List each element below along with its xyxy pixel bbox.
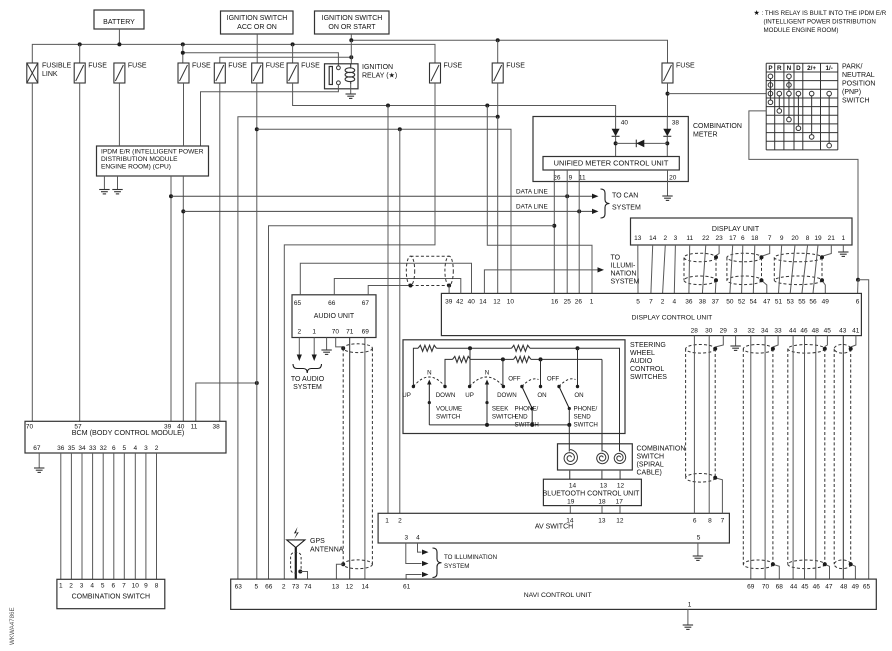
- wire audio 66 to DCU 42: [334, 279, 461, 295]
- svg-text:51: 51: [775, 299, 783, 306]
- svg-text:4: 4: [416, 535, 420, 542]
- wire DU17 to DCU50: [730, 245, 733, 293]
- wire gps shield to NAVI 13: [341, 562, 345, 566]
- svg-text:COMBINATION: COMBINATION: [693, 123, 742, 130]
- svg-text:67: 67: [33, 445, 41, 452]
- svg-text:19: 19: [814, 235, 822, 242]
- svg-text:38: 38: [672, 120, 680, 127]
- svg-text:NAVI CONTROL UNIT: NAVI CONTROL UNIT: [524, 592, 592, 599]
- svg-text:RELAY (★): RELAY (★): [362, 72, 397, 80]
- svg-text:20: 20: [791, 235, 799, 242]
- svg-text:12: 12: [346, 584, 354, 591]
- pole wire to spiral 1: [568, 425, 570, 452]
- svg-text:33: 33: [774, 328, 782, 335]
- wire DU6 to DCU52: [742, 245, 743, 293]
- fuse at x=667.5: [662, 63, 673, 83]
- svg-text:37: 37: [712, 299, 720, 306]
- svg-text:13: 13: [598, 518, 606, 525]
- shield C4 (DCU 43 to NAVI 48): [833, 349, 835, 565]
- svg-text:FUSE: FUSE: [444, 63, 463, 70]
- svg-text:MODULE ENGINE ROOM): MODULE ENGINE ROOM): [764, 27, 839, 34]
- data line 2: [183, 210, 592, 212]
- svg-text:67: 67: [362, 300, 370, 307]
- wires spiral to bluetooth: [569, 470, 571, 479]
- wire UMCU 9 to DCU 25: [566, 170, 568, 293]
- wire shield C2 to NAVI68: [773, 564, 779, 579]
- svg-text:11: 11: [686, 235, 693, 242]
- wire DU2 to DCU2: [663, 245, 666, 293]
- wire UMCU 11 to DCU 26: [578, 170, 580, 293]
- ground IPDM 2: [117, 176, 119, 190]
- combination switch box: [57, 579, 165, 608]
- svg-text:TO AUDIO: TO AUDIO: [291, 376, 325, 383]
- svg-text:45: 45: [801, 584, 809, 591]
- svg-text:ON OR START: ON OR START: [328, 24, 376, 31]
- svg-text:33: 33: [89, 445, 97, 452]
- wires bluetooth to AV switch: [569, 506, 571, 514]
- wire DU21 to shield G3: [822, 245, 831, 256]
- wire branch to DCU 1: [487, 106, 592, 294]
- svg-text:CONTROL: CONTROL: [630, 366, 664, 373]
- audio ground pin: [326, 338, 328, 351]
- seek switch: [468, 385, 471, 388]
- svg-text:38: 38: [212, 423, 220, 430]
- wire fuse 667 to PNP and meter 38: [667, 83, 669, 117]
- svg-text:28: 28: [691, 328, 699, 335]
- svg-text:36: 36: [685, 299, 693, 306]
- svg-text:66: 66: [265, 584, 273, 591]
- bus UMCU26 junction to NAVI 66: [269, 226, 555, 579]
- svg-text:65: 65: [294, 300, 302, 307]
- svg-text:1: 1: [841, 235, 845, 242]
- svg-text:4: 4: [672, 299, 676, 306]
- steering wheel switch box: [403, 340, 625, 434]
- volume switch: [412, 385, 415, 388]
- svg-text:69: 69: [362, 329, 370, 336]
- svg-text:WKWA4786E: WKWA4786E: [9, 607, 16, 645]
- wire audio 71 to NAVI 12: [349, 338, 351, 580]
- wire DCU43 to NAVI48: [842, 336, 844, 579]
- svg-text:17: 17: [616, 498, 624, 505]
- wires BCM to combination switch: [61, 453, 157, 579]
- audio outputs to audio system: [298, 338, 300, 356]
- wire DCU34 to NAVI70: [764, 336, 766, 579]
- wire DCU48 to NAVI46: [815, 336, 817, 579]
- wire shield G1 to DCU37: [714, 280, 717, 293]
- svg-text:IPDM E/R (INTELLIGENT POWER: IPDM E/R (INTELLIGENT POWER: [101, 149, 204, 156]
- svg-text:2: 2: [398, 518, 402, 525]
- shield C2 (DCU 32,34 to NAVI 69,70): [742, 349, 744, 565]
- svg-text:25: 25: [564, 299, 572, 306]
- svg-text:TO ILLUMINATION: TO ILLUMINATION: [444, 554, 497, 561]
- svg-text:ENGINE ROOM) (CPU): ENGINE ROOM) (CPU): [101, 164, 171, 171]
- svg-text:PARK/: PARK/: [842, 64, 863, 71]
- wire gps shield to NAVI 74: [300, 572, 307, 580]
- svg-text:NATION: NATION: [611, 271, 637, 278]
- wire branch to AV 1: [387, 106, 389, 514]
- AV switch box: [378, 513, 729, 543]
- svg-text:7: 7: [721, 518, 725, 525]
- svg-text:SWITCH: SWITCH: [492, 414, 516, 421]
- svg-text:43: 43: [839, 328, 847, 335]
- svg-text:BATTERY: BATTERY: [103, 19, 135, 26]
- bus B ignition ON feed: [350, 34, 352, 40]
- svg-text:★ : THIS RELAY IS BUILT INTO T: ★ : THIS RELAY IS BUILT INTO THE IPDM E/…: [754, 9, 887, 17]
- svg-text:FUSE: FUSE: [676, 63, 695, 70]
- svg-text:70: 70: [762, 584, 770, 591]
- svg-text:32: 32: [747, 328, 755, 335]
- svg-text:AUDIO: AUDIO: [630, 358, 653, 365]
- wire DCU28 to AV6: [693, 336, 695, 514]
- NAVI 61 to illumination: [406, 575, 421, 580]
- wire fuse 497 bus to NAVI 63: [497, 83, 499, 117]
- svg-text:METER: METER: [693, 132, 718, 139]
- svg-text:35: 35: [68, 445, 76, 452]
- display unit box: [631, 218, 853, 245]
- phone/send switch: [557, 385, 560, 388]
- svg-text:LINK: LINK: [42, 71, 58, 78]
- svg-text:49: 49: [852, 584, 860, 591]
- svg-text:FUSE: FUSE: [192, 63, 211, 70]
- svg-text:CABLE): CABLE): [637, 470, 662, 477]
- svg-text:N: N: [427, 370, 431, 377]
- wire shield to DCU 39: [448, 286, 450, 294]
- svg-text:13: 13: [600, 483, 608, 490]
- svg-text:FUSE: FUSE: [128, 63, 147, 70]
- wire DCU45 to shield C3: [825, 336, 828, 347]
- audio unit box: [292, 295, 376, 338]
- svg-text:1: 1: [312, 329, 316, 336]
- svg-text:44: 44: [790, 584, 798, 591]
- wire UMCU 26 to DCU 16: [553, 170, 555, 293]
- svg-text:2: 2: [661, 299, 665, 306]
- IPDM E/R box: [97, 146, 209, 176]
- svg-text:2: 2: [69, 583, 73, 590]
- wire battery to bus: [118, 29, 120, 44]
- svg-text:(SPIRAL: (SPIRAL: [637, 462, 664, 469]
- svg-text:14: 14: [479, 299, 487, 306]
- svg-text:(PNP): (PNP): [842, 89, 861, 96]
- wire fuse 80 to BCM 57: [79, 83, 81, 421]
- svg-text:9: 9: [569, 175, 573, 182]
- svg-text:5: 5: [636, 299, 640, 306]
- diode between 40 and 38: [616, 142, 668, 144]
- svg-text:22: 22: [702, 235, 710, 242]
- svg-text:COMBINATION: COMBINATION: [637, 446, 686, 453]
- svg-text:65: 65: [863, 584, 871, 591]
- wire DU19 to DCU56: [813, 245, 818, 293]
- wire ignition coil drop: [350, 40, 352, 64]
- svg-text:10: 10: [507, 299, 515, 306]
- battery box: [94, 10, 144, 29]
- unified meter control unit: [543, 157, 679, 171]
- wire audio 70 to gps shield: [336, 338, 344, 347]
- bottom rail: [429, 424, 569, 426]
- svg-text:6: 6: [693, 518, 697, 525]
- wire fuse battery to IPDM: [118, 83, 120, 146]
- AV pin 5 ground: [697, 543, 699, 556]
- svg-text:19: 19: [567, 498, 575, 505]
- wire fuse risers from bus A: [79, 44, 81, 63]
- svg-text:17: 17: [729, 235, 737, 242]
- gps antenna: [287, 540, 305, 548]
- BCM 67 ground: [38, 453, 40, 468]
- svg-text:IGNITION SWITCH: IGNITION SWITCH: [227, 15, 288, 22]
- svg-text:14: 14: [649, 235, 657, 242]
- ignition switch ACC box: [221, 11, 294, 34]
- svg-text:N: N: [787, 65, 792, 72]
- navi control unit box: [231, 579, 877, 609]
- svg-text:FUSE: FUSE: [228, 63, 247, 70]
- svg-text:12: 12: [617, 483, 625, 490]
- svg-text:68: 68: [776, 584, 784, 591]
- svg-text:8: 8: [708, 518, 712, 525]
- svg-text:UP: UP: [402, 392, 411, 399]
- wire shield C3 to NAVI47: [825, 564, 830, 579]
- svg-text:UP: UP: [465, 392, 474, 399]
- svg-text:56: 56: [809, 299, 817, 306]
- svg-text:DISPLAY CONTROL UNIT: DISPLAY CONTROL UNIT: [632, 315, 713, 322]
- combination meter box: [533, 117, 688, 182]
- wire ACC branch to AV 2: [399, 129, 401, 513]
- svg-text:34: 34: [78, 445, 86, 452]
- bluetooth control unit box: [543, 479, 641, 505]
- wire DU14 to DCU7: [651, 245, 653, 293]
- shield C3 (DCU 44,46,48 to NAVI 44,45,46): [787, 349, 789, 565]
- svg-text:54: 54: [750, 299, 758, 306]
- ignition switch ON box: [315, 11, 390, 34]
- wire PNP R to DCU 6 / NAVI 65: [749, 111, 858, 280]
- svg-text:1: 1: [59, 583, 63, 590]
- svg-text:6: 6: [856, 299, 860, 306]
- svg-text:47: 47: [825, 584, 833, 591]
- svg-text:14: 14: [569, 483, 577, 490]
- wire fuse 184 to IPDM: [183, 83, 185, 146]
- svg-text:14: 14: [566, 518, 574, 525]
- wire DU9 to DCU51: [779, 245, 782, 293]
- svg-text:4: 4: [90, 583, 94, 590]
- fuse at x=183.5: [178, 63, 189, 83]
- fuse at x=292.6: [287, 63, 298, 83]
- svg-text:D: D: [796, 65, 801, 72]
- wire DCU30 to AV8: [708, 336, 710, 514]
- DCU 3 ground: [735, 336, 737, 346]
- svg-text:DISPLAY UNIT: DISPLAY UNIT: [712, 226, 760, 233]
- fuse at x=257.2: [252, 63, 263, 83]
- bus D ignition to fuse 220: [220, 57, 351, 63]
- bus A battery feed: [32, 44, 435, 63]
- svg-text:63: 63: [235, 584, 243, 591]
- svg-text:FUSE: FUSE: [266, 63, 285, 70]
- svg-text:(INTELLIGENT POWER DISTRIBUTIO: (INTELLIGENT POWER DISTRIBUTION: [764, 19, 876, 26]
- svg-text:50: 50: [726, 299, 734, 306]
- svg-text:16: 16: [551, 299, 559, 306]
- bus C to relay contact: [183, 53, 339, 66]
- svg-text:OFF: OFF: [508, 376, 521, 383]
- fuse at x=497.7: [492, 63, 503, 83]
- svg-text:SWITCH: SWITCH: [436, 414, 460, 421]
- svg-text:SWITCH: SWITCH: [637, 454, 665, 461]
- fuse at x=79.7: [74, 63, 85, 83]
- svg-text:39: 39: [445, 299, 453, 306]
- wire shield G2 to DCU47: [762, 280, 767, 293]
- svg-text:46: 46: [800, 328, 808, 335]
- svg-text:12: 12: [493, 299, 501, 306]
- wire IPDM to BCM 39 (CAN): [170, 176, 172, 421]
- svg-text:44: 44: [789, 328, 797, 335]
- fuse at x=219.8: [214, 63, 225, 83]
- wire shield C1 to AV7: [715, 478, 722, 514]
- svg-text:5: 5: [254, 584, 258, 591]
- wire relay coil to ground: [350, 84, 352, 94]
- svg-text:FUSE: FUSE: [301, 63, 320, 70]
- svg-text:32: 32: [100, 445, 108, 452]
- svg-text:53: 53: [787, 299, 795, 306]
- gps antenna shield: [291, 553, 302, 574]
- svg-text:52: 52: [738, 299, 746, 306]
- svg-text:ILLUMI-: ILLUMI-: [611, 263, 637, 270]
- rail 2: [445, 359, 453, 386]
- svg-text:SYSTEM: SYSTEM: [293, 384, 322, 391]
- ignition relay U1: [325, 64, 359, 89]
- fuse at x=119.4: [114, 63, 125, 83]
- svg-text:20: 20: [669, 175, 677, 182]
- brace to CAN system: [601, 189, 610, 218]
- svg-text:3: 3: [80, 583, 84, 590]
- ground IPDM 1: [103, 176, 105, 190]
- svg-text:70: 70: [26, 423, 34, 430]
- wire DU8 to DCU55: [802, 245, 808, 293]
- wire DU20 to DCU53: [790, 245, 795, 293]
- wire relay contact output to IPDM: [201, 85, 339, 146]
- svg-text:48: 48: [812, 328, 820, 335]
- svg-text:AUDIO UNIT: AUDIO UNIT: [314, 313, 355, 320]
- wire DU23 to shield G1: [716, 245, 719, 256]
- svg-text:DOWN: DOWN: [497, 392, 517, 399]
- svg-text:48: 48: [840, 584, 848, 591]
- fuse at x=435: [430, 63, 441, 83]
- svg-text:AV SWITCH: AV SWITCH: [535, 524, 573, 531]
- svg-text:TO CAN: TO CAN: [612, 193, 638, 200]
- wire fuse 220 to BCM 38: [219, 83, 221, 421]
- svg-text:40: 40: [177, 423, 185, 430]
- svg-text:FUSE: FUSE: [88, 63, 107, 70]
- rail 2 drop to seek DOWN: [502, 359, 504, 386]
- svg-text:SWITCHES: SWITCHES: [630, 374, 667, 381]
- svg-text:2/+: 2/+: [807, 65, 816, 72]
- svg-text:SWITCH: SWITCH: [574, 422, 598, 429]
- svg-text:SWITCH: SWITCH: [842, 98, 870, 105]
- svg-text:9: 9: [780, 235, 784, 242]
- PNP contacts: [768, 74, 831, 148]
- wire fuse 497 riser: [497, 40, 499, 63]
- wire shield G3 to DCU49: [822, 280, 825, 293]
- svg-text:1: 1: [385, 518, 389, 525]
- svg-text:8: 8: [806, 235, 810, 242]
- wire audio 69 to NAVI 14: [364, 338, 366, 580]
- wire DU22 to DCU38: [702, 245, 705, 293]
- wire DCU46 to NAVI45: [804, 336, 806, 579]
- wire fuse 292 bus to combination meter 40: [293, 83, 616, 117]
- svg-text:7: 7: [649, 299, 653, 306]
- svg-text:41: 41: [852, 328, 860, 335]
- svg-text:IGNITION: IGNITION: [362, 64, 393, 71]
- wire fuse 497 to DCU 12: [497, 117, 499, 294]
- svg-text:40: 40: [621, 120, 629, 127]
- wire DCU32 to NAVI69: [750, 336, 752, 579]
- svg-text:END: END: [515, 414, 529, 421]
- svg-text:2: 2: [282, 584, 286, 591]
- svg-text:34: 34: [761, 328, 769, 335]
- wire DCU33 to shield C2: [773, 336, 778, 347]
- svg-text:69: 69: [747, 584, 755, 591]
- svg-text:PHONE/: PHONE/: [574, 406, 598, 413]
- svg-text:26: 26: [575, 299, 583, 306]
- svg-text:57: 57: [74, 423, 82, 430]
- svg-text:40: 40: [468, 299, 476, 306]
- rail 2 to spiral 2: [601, 359, 603, 451]
- display control unit box: [441, 293, 861, 335]
- svg-text:OFF: OFF: [547, 376, 560, 383]
- svg-text:SEEK: SEEK: [492, 406, 509, 413]
- svg-text:3: 3: [144, 445, 148, 452]
- BCM box: [25, 421, 226, 453]
- svg-text:DATA LINE: DATA LINE: [516, 204, 548, 211]
- wire DU7 to shield G2: [762, 245, 770, 256]
- svg-text:ACC OR ON: ACC OR ON: [237, 24, 277, 31]
- svg-text:70: 70: [332, 329, 340, 336]
- svg-text:7: 7: [768, 235, 772, 242]
- phone/end switch: [520, 385, 523, 388]
- svg-text:ON: ON: [574, 392, 583, 399]
- svg-text:12: 12: [616, 518, 624, 525]
- wire DU3 to DCU4: [674, 245, 675, 293]
- rail 1: [413, 348, 418, 386]
- wire ACC fuse down to NAVI 5: [256, 83, 258, 579]
- svg-text:BLUETOOTH CONTROL UNIT: BLUETOOTH CONTROL UNIT: [543, 491, 641, 498]
- wire ACC branch to BCM 11: [196, 383, 257, 421]
- wire DCU41 to shield C4: [851, 336, 856, 347]
- wire shield C4 to NAVI49: [851, 564, 856, 579]
- svg-text:DOWN: DOWN: [436, 392, 456, 399]
- wire ACC switch to fuse: [256, 34, 258, 63]
- svg-text:9: 9: [144, 583, 148, 590]
- svg-text:23: 23: [715, 235, 723, 242]
- AV pins 3,4 to illumination: [418, 543, 422, 552]
- svg-text:6: 6: [741, 235, 745, 242]
- svg-text:46: 46: [813, 584, 821, 591]
- audio shield cable: [406, 256, 414, 285]
- svg-text:STEERING: STEERING: [630, 342, 666, 349]
- svg-text:18: 18: [751, 235, 759, 242]
- wire DCU44 to NAVI44: [792, 336, 794, 579]
- svg-text:61: 61: [403, 584, 411, 591]
- svg-text:49: 49: [822, 299, 830, 306]
- ground display unit pin 1: [842, 245, 844, 252]
- svg-text:SYSTEM: SYSTEM: [611, 279, 640, 286]
- ground relay: [346, 93, 356, 95]
- rail 1 to spiral 3: [578, 348, 620, 451]
- svg-text:21: 21: [828, 235, 836, 242]
- svg-text:74: 74: [304, 584, 312, 591]
- wire DU13 to DCU5: [637, 245, 639, 293]
- svg-text:66: 66: [328, 300, 336, 307]
- svg-text:45: 45: [824, 328, 832, 335]
- svg-text:13: 13: [332, 584, 340, 591]
- combination switch spiral cable box: [558, 444, 633, 470]
- ACC bus to DCU 10: [257, 129, 511, 293]
- svg-text:2: 2: [297, 329, 301, 336]
